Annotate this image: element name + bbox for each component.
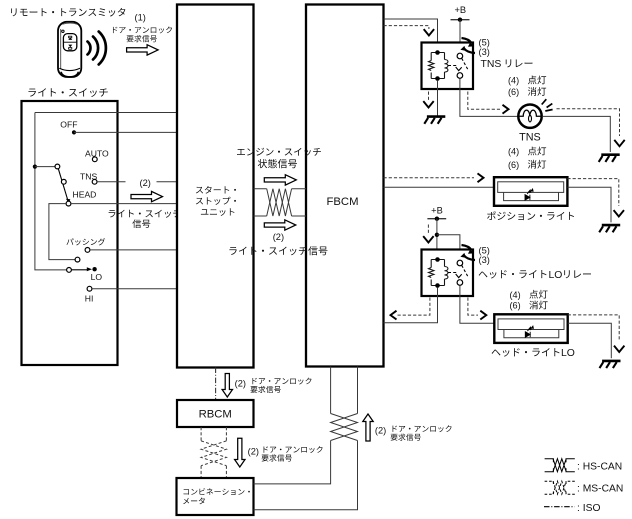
ground TNS lamp <box>599 155 620 162</box>
label engine switch status a <box>237 148 321 156</box>
headlight LO relay K2 switch arm (dashed) <box>462 265 469 277</box>
remote transmitter key fob icon <box>58 22 81 77</box>
wire headlight relay coil to FBCM <box>384 288 438 323</box>
svg-text:(2): (2) <box>273 232 284 242</box>
svg-text:TNS: TNS <box>519 132 541 144</box>
node LO contact <box>92 267 96 271</box>
wire TNS relay coil to ground <box>437 81 439 117</box>
svg-text:(5): (5) <box>479 245 490 255</box>
svg-text:(1): (1) <box>135 13 146 23</box>
rotary switch arm <box>58 169 67 200</box>
svg-text:TNS: TNS <box>481 59 502 70</box>
svg-text:(4): (4) <box>508 147 519 157</box>
label start-stop 2 <box>196 197 236 205</box>
dashed FBCM to position light <box>384 177 475 179</box>
arrow door-unlock signal to start-stop unit <box>127 45 159 55</box>
dashed TNS lamp to ground <box>557 109 620 136</box>
wireless signal waves <box>88 32 106 65</box>
arrow light switch signal to FBCM <box>264 220 296 230</box>
wire OFF to start-stop unit <box>74 131 177 133</box>
+B terminal bar headlight <box>427 218 446 220</box>
position light L1 LED symbol <box>525 189 533 200</box>
label door unlock RBCM a <box>252 378 311 385</box>
ground TNS relay coil <box>424 117 445 124</box>
svg-text:(5): (5) <box>479 37 490 47</box>
position light L1 housing <box>494 177 567 206</box>
dashed headlight relay to FBCM <box>396 298 430 316</box>
dashed headlight to ground <box>568 315 620 341</box>
legend ISO symbol <box>544 506 575 508</box>
label ON headlight <box>529 290 547 299</box>
svg-text:(2): (2) <box>235 379 246 389</box>
label light switch <box>28 88 107 97</box>
wire TNS lamp to ground <box>542 116 610 152</box>
TNS relay K1 actuation curved arrows <box>462 38 476 53</box>
ISO line start-stop unit to RBCM <box>215 368 217 401</box>
headlight LO relay K2 switch contacts <box>457 260 463 266</box>
label TNS relay b <box>506 59 533 67</box>
svg-text:(6): (6) <box>510 301 521 311</box>
wire +B to headlight relay coil <box>436 219 438 261</box>
dashed coil current to ground <box>428 92 430 102</box>
svg-text:LO: LO <box>561 348 575 359</box>
svg-text:: MS-CAN: : MS-CAN <box>577 484 623 495</box>
wire HEAD to start-stop unit <box>71 203 177 205</box>
svg-text:(6): (6) <box>508 160 519 170</box>
label combination meter b <box>183 498 205 505</box>
contact HEAD <box>66 201 71 206</box>
label engine switch status b <box>258 159 297 168</box>
TNS relay K1 mechanical link (dashed) <box>448 65 457 67</box>
label light switch signal a <box>109 210 181 218</box>
MS-CAN twisted pair RBCM to combination meter <box>201 427 226 478</box>
RBCM U3 <box>177 400 254 427</box>
FBCM U2 <box>306 5 384 367</box>
dimmer arm to LO <box>71 269 87 271</box>
label door unlock FBCM b <box>391 434 421 441</box>
svg-text:HEAD: HEAD <box>73 190 97 200</box>
headlight LO relay K2 coil+resistor parallel branch <box>429 260 448 286</box>
label position light <box>487 211 574 220</box>
dashed relay to headlight <box>468 298 478 316</box>
svg-text:LO: LO <box>549 270 563 281</box>
svg-text:(4): (4) <box>508 76 519 86</box>
wire FBCM to position light <box>384 186 495 188</box>
label OFF TNS lamp <box>528 87 546 96</box>
label headlight LO relay a <box>479 270 547 279</box>
label start-stop 3 <box>201 208 235 216</box>
wire TNS to start-stop unit <box>97 181 177 183</box>
label door unlock FBCM a <box>393 425 452 432</box>
contact arm start <box>55 164 60 169</box>
TNS lamp filament <box>519 110 542 116</box>
svg-text:(3): (3) <box>479 255 490 265</box>
svg-text:HI: HI <box>85 293 94 303</box>
label headlight LO relay c <box>564 270 591 278</box>
light switch box <box>22 101 118 365</box>
label door unlock request 1a <box>113 27 172 34</box>
label remote transmitter <box>11 8 125 17</box>
TNS relay K1 switch contacts <box>457 53 463 59</box>
headlight LO relay K2 actuation curved arrows <box>462 245 476 260</box>
label light switch signal pair <box>229 246 327 255</box>
wire common feed to start-stop unit <box>35 112 177 114</box>
HS-CAN twisted pair between start-stop unit and FBCM <box>254 189 307 216</box>
label ON TNS lamp <box>528 76 546 85</box>
+B terminal bar TNS <box>451 19 470 21</box>
dashed control to headlight relay <box>427 225 429 235</box>
dashed control FBCM to TNS relay <box>384 26 429 29</box>
lamp TNS <box>518 105 541 128</box>
headlight LO L2 housing <box>494 314 567 343</box>
svg-text:(2): (2) <box>140 178 151 188</box>
label light switch signal b <box>132 219 150 228</box>
node +B headlight <box>435 217 439 221</box>
dashed TNS feed to lamp <box>468 92 500 110</box>
wire headlight to ground <box>568 323 612 358</box>
contact HI <box>87 286 92 291</box>
TNS lamp rays <box>542 99 553 111</box>
contact arm TNS position <box>61 179 66 184</box>
label start-stop 1 <box>196 186 236 194</box>
contact dimmer arm <box>67 268 72 273</box>
wire HI to start-stop unit <box>92 288 177 290</box>
label combination meter a <box>184 488 250 495</box>
wire TNS relay switch to TNS lamp <box>460 79 518 117</box>
label headlight LO a <box>492 348 560 357</box>
svg-text:+B: +B <box>454 5 466 15</box>
contact passing <box>85 248 90 253</box>
label ON position light <box>528 147 546 156</box>
wire internal bus <box>35 113 67 270</box>
node +B TNS <box>458 18 462 22</box>
label passing <box>67 238 106 245</box>
wire branch to headlight relay switch <box>437 235 460 261</box>
arrow engine switch status signal <box>264 175 296 185</box>
label OFF headlight <box>529 301 547 310</box>
svg-text:OFF: OFF <box>60 120 77 130</box>
svg-text:(3): (3) <box>479 47 490 57</box>
node branch to switch <box>435 233 439 237</box>
wire HEAD to dimmer pivot <box>49 204 75 260</box>
svg-text:RBCM: RBCM <box>199 408 232 420</box>
arrow door unlock meter to FBCM <box>363 414 373 441</box>
position light L1 lens <box>498 182 564 193</box>
wire headlight relay switch to headlight <box>460 286 494 324</box>
svg-text:(6): (6) <box>508 87 519 97</box>
svg-text:(4): (4) <box>510 290 521 300</box>
ground position light <box>599 225 620 232</box>
legend MS-CAN symbol <box>545 481 575 494</box>
node OFF contact <box>72 130 76 134</box>
wire position light to ground <box>567 187 611 222</box>
combination meter U4 <box>177 478 254 515</box>
contact AUTO <box>92 157 97 162</box>
TNS relay K1 coil+resistor parallel branch <box>429 53 448 79</box>
label door unlock meter a <box>264 446 323 453</box>
wire pivot to arm <box>35 166 55 168</box>
svg-text:FBCM: FBCM <box>326 196 358 208</box>
light switch signal arrow <box>131 191 163 201</box>
dashed position light to ground <box>567 179 618 206</box>
HS-CAN twisted pair FBCM to combination meter <box>254 367 331 484</box>
label door unlock meter b <box>262 454 292 461</box>
ground headlight LO <box>600 361 621 368</box>
svg-text:LO: LO <box>91 272 103 282</box>
svg-text:(2): (2) <box>248 447 259 457</box>
headlight LO L2 LED symbol <box>525 326 533 337</box>
svg-text:: ISO: : ISO <box>577 503 600 514</box>
label OFF position light <box>528 160 546 169</box>
contact TNS <box>92 179 97 184</box>
TNS relay K1 switch arm (dashed) <box>462 58 469 70</box>
svg-text:: HS-CAN: : HS-CAN <box>577 461 622 472</box>
headlight LO relay K2 mechanical link (dashed) <box>448 272 457 274</box>
label door unlock RBCM b <box>250 386 280 393</box>
TNS relay K1 box <box>422 43 474 90</box>
wire FBCM to TNS relay coil <box>384 19 438 53</box>
svg-text:(2): (2) <box>375 425 386 435</box>
svg-text:AUTO: AUTO <box>85 148 109 158</box>
headlight LO relay K2 box <box>422 250 474 297</box>
svg-text:+B: +B <box>431 206 443 216</box>
headlight LO L2 lens <box>498 319 564 330</box>
node rotary switch pivot <box>33 165 37 169</box>
label door unlock request 1b <box>127 35 157 42</box>
contact dimmer pivot <box>75 257 80 262</box>
wire +B to TNS relay switch <box>459 20 461 54</box>
wire passing to start-stop unit <box>90 249 177 251</box>
arrow door unlock to RBCM <box>222 374 232 398</box>
arrow door unlock to meter <box>235 438 245 467</box>
start-stop unit U1 <box>177 5 254 368</box>
legend HS-CAN symbol <box>545 459 575 472</box>
